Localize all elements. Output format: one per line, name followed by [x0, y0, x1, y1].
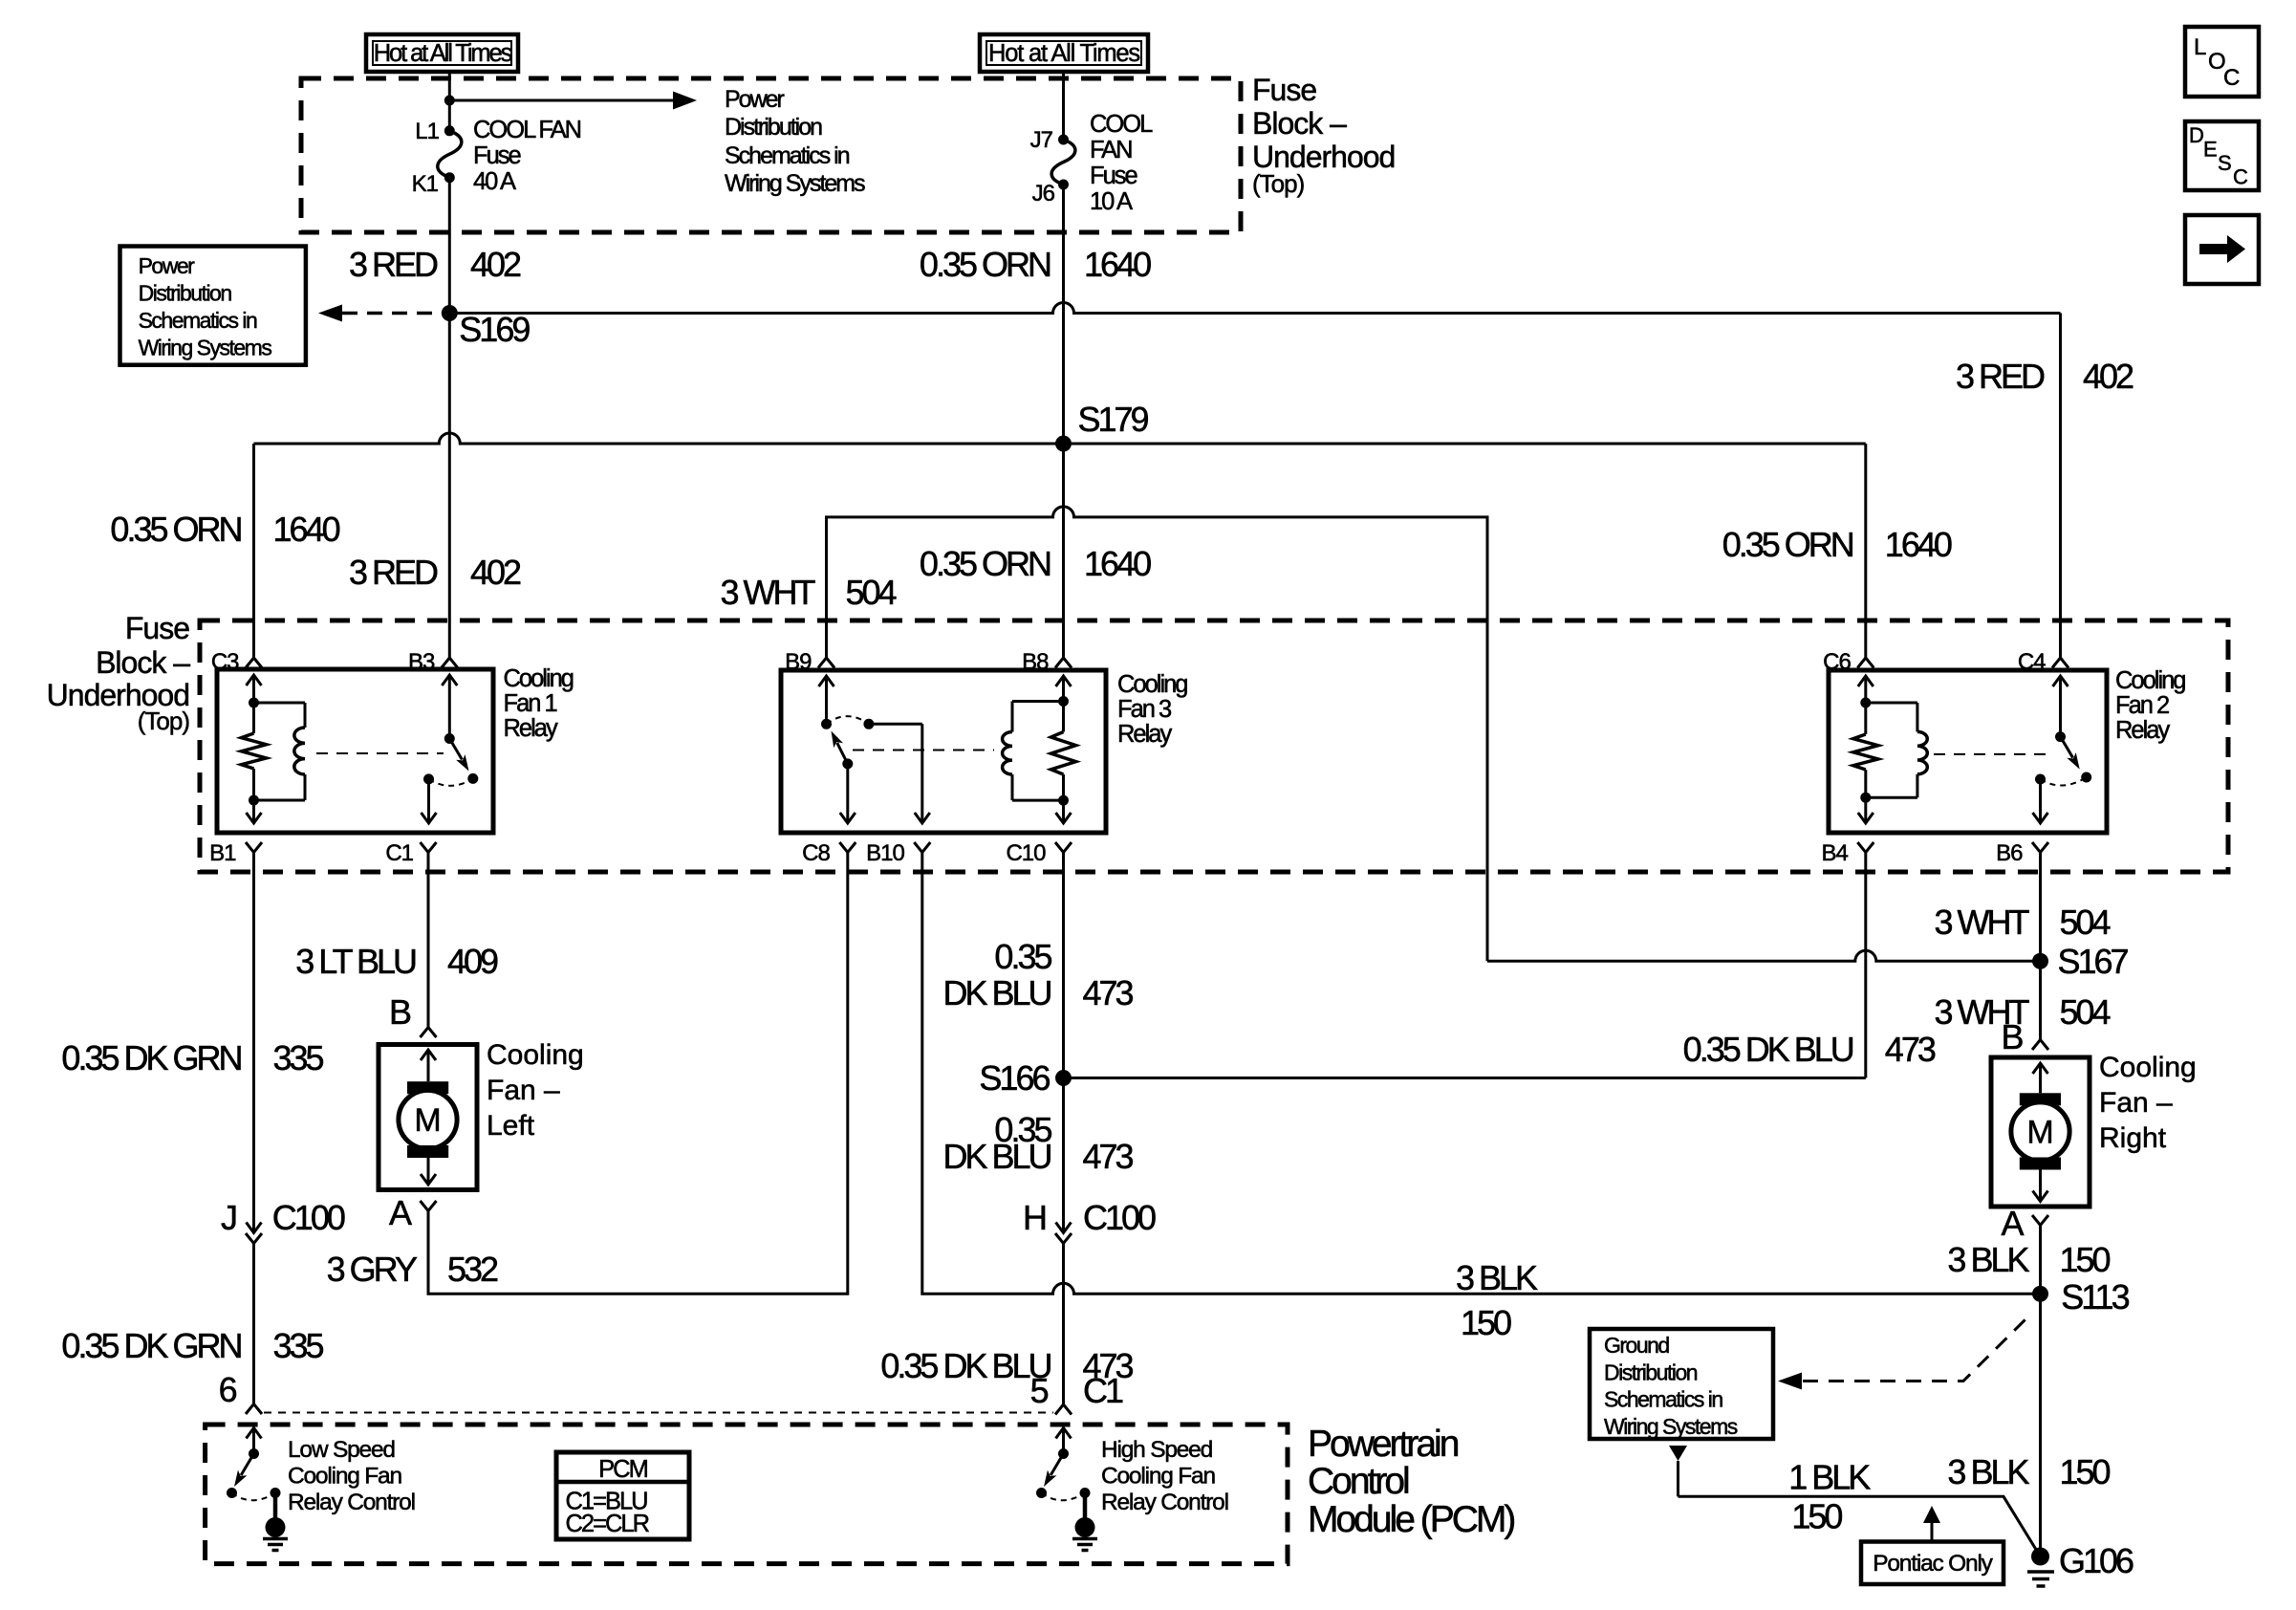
svg-text:L1: L1 [415, 119, 439, 144]
svg-text:C6: C6 [1823, 649, 1851, 675]
svg-text:COOL: COOL [1090, 111, 1153, 138]
svg-text:5: 5 [1030, 1371, 1049, 1410]
svg-text:Fan –: Fan – [2099, 1087, 2173, 1119]
pin C3 connector [246, 658, 262, 668]
svg-text:Relay Control: Relay Control [1101, 1490, 1228, 1515]
fuse block underhood dashed boundary (main) [200, 620, 2228, 872]
svg-text:Distribution: Distribution [139, 281, 232, 306]
wire: C100 H down to PCM pin 5, 0.35 DK BLU 473 [1062, 1244, 1065, 1405]
svg-text:Cooling: Cooling [487, 1039, 584, 1071]
pin A connector (motor right) [2032, 1215, 2048, 1226]
wire: down to relay C6, 0.35 ORN 1640 [1864, 444, 1867, 658]
svg-text:Wiring Systems: Wiring Systems [725, 170, 865, 197]
pin A connector (motor left) [421, 1201, 437, 1211]
wire: relay C1 down to left fan motor B, 3 LT BLU 409 [427, 853, 430, 1028]
relay2 actuation dashed link [1934, 753, 2049, 755]
svg-text:(Top): (Top) [138, 707, 190, 735]
svg-text:0.35 DK BLU: 0.35 DK BLU [880, 1346, 1051, 1385]
svg-text:D: D [2189, 123, 2203, 147]
PCM pin 5 connector [1055, 1404, 1072, 1415]
pin B10 connector [914, 842, 930, 853]
svg-text:B: B [389, 992, 411, 1032]
relay K1A: Cooling Fan 1 Relay box [217, 669, 493, 833]
wire: 1 BLK 150 to G106 [1679, 1496, 2041, 1556]
svg-text:402: 402 [470, 245, 521, 284]
relay2 switch common C4 internal [2053, 676, 2069, 686]
relay3 actuation dashed link [853, 750, 994, 751]
svg-text:Fan 1: Fan 1 [504, 690, 557, 717]
relay switch arm [449, 739, 462, 760]
wire: down to relay C3, 0.35 ORN 1640 [252, 444, 255, 658]
svg-text:3 WHT: 3 WHT [1935, 903, 2030, 942]
svg-text:S167: S167 [2058, 942, 2129, 981]
svg-text:0.35 ORN: 0.35 ORN [1722, 525, 1853, 564]
relay2 switch contact to B6 [2035, 774, 2046, 785]
PCM connector C1 thin dashed line [264, 1412, 1053, 1414]
svg-text:DK BLU: DK BLU [942, 973, 1051, 1012]
svg-text:B8: B8 [1022, 649, 1049, 675]
ground (PCM internal) [266, 1517, 286, 1537]
svg-text:S: S [2218, 151, 2231, 175]
svg-text:3 LT BLU: 3 LT BLU [295, 942, 416, 981]
svg-text:Power: Power [725, 86, 785, 113]
connector C100 pin J [247, 1223, 262, 1233]
svg-text:3 BLK: 3 BLK [1456, 1258, 1538, 1297]
svg-text:Relay: Relay [504, 715, 558, 742]
relay3 coil feed B8 internal [1056, 676, 1072, 686]
svg-text:Cooling Fan: Cooling Fan [1101, 1464, 1215, 1490]
svg-text:B1: B1 [209, 840, 236, 866]
relay resistor (parallel) [252, 703, 255, 733]
wire: down to relay C4, 3 RED 402 [2059, 314, 2062, 659]
reference box: Power Distribution Schematics in Wiring Systems (left) [120, 247, 306, 365]
svg-text:402: 402 [2083, 357, 2134, 396]
svg-text:C100: C100 [1083, 1198, 1156, 1237]
legend icon box LOC [2185, 27, 2259, 97]
svg-text:3 WHT: 3 WHT [721, 573, 816, 612]
relay3 coil [1012, 700, 1064, 703]
svg-text:K1: K1 [412, 171, 439, 197]
wire: S169 bus to the right, hops over fuse2 wire, turns down to C4 [449, 303, 2060, 314]
PCM driver switch [1056, 1428, 1072, 1439]
svg-text:Right: Right [2099, 1122, 2167, 1154]
svg-text:335: 335 [273, 1038, 324, 1077]
relay actuation dashed link [316, 752, 444, 754]
relay switch contact to C1 [423, 773, 434, 784]
svg-text:1640: 1640 [1084, 245, 1151, 284]
svg-text:335: 335 [273, 1326, 324, 1365]
wire: 3 WHT 504 net from relay B9 up and over to S167 [827, 507, 1488, 961]
pin C1 connector [421, 842, 437, 853]
wire: relay C10 down through S166 to C100 pin H, 0.35 DK BLU 473 [1062, 853, 1065, 1226]
dashed arrow from S169 to reference box [342, 312, 442, 315]
svg-text:B: B [2001, 1017, 2023, 1056]
svg-text:Cooling: Cooling [2115, 667, 2185, 694]
pin C8 connector [839, 842, 856, 853]
svg-text:504: 504 [846, 573, 897, 612]
legend icon box arrow [2185, 215, 2259, 284]
svg-text:C100: C100 [272, 1198, 345, 1237]
relay3 switch arm from C8 contact [842, 758, 853, 769]
wire: S169 leg down to relay B3 [448, 314, 451, 659]
svg-text:3 BLK: 3 BLK [1947, 1240, 2029, 1279]
svg-text:3 RED: 3 RED [349, 245, 438, 284]
pin B8 connector [1055, 658, 1072, 668]
power label box: Hot at All Times (left) [366, 34, 518, 72]
pin C10 connector [1055, 842, 1072, 853]
svg-text:(Top): (Top) [1252, 169, 1305, 198]
svg-text:Relay: Relay [1117, 721, 1172, 748]
svg-text:M: M [414, 1102, 441, 1139]
svg-text:150: 150 [2060, 1240, 2111, 1279]
svg-text:3 BLK: 3 BLK [1947, 1452, 2029, 1491]
wire to B1 internal [252, 800, 255, 822]
svg-text:G106: G106 [2059, 1541, 2134, 1580]
svg-text:E: E [2203, 138, 2217, 162]
svg-text:M: M [2026, 1115, 2053, 1151]
svg-text:J6: J6 [1032, 181, 1055, 207]
svg-text:C8: C8 [802, 840, 830, 866]
arrow from Pontiac Only box up [1931, 1522, 1934, 1542]
svg-text:Schematics in: Schematics in [139, 308, 257, 333]
relay2 coil [1866, 702, 1917, 705]
PCM legend box [556, 1452, 689, 1539]
wire: S166 to relay B4, 0.35 DK BLU 473 [1064, 1077, 1866, 1079]
svg-text:504: 504 [2060, 903, 2111, 942]
motor M1: Cooling Fan - Left [421, 1028, 437, 1038]
wire: right fan motor A down to S113, 3 BLK 150 [2039, 1226, 2042, 1295]
wire: relay B1 down to C100 pin J, 0.35 DK GRN 335 [252, 853, 255, 1226]
svg-text:409: 409 [447, 942, 498, 981]
svg-text:0.35 DK BLU: 0.35 DK BLU [1683, 1030, 1853, 1069]
svg-text:Hot at All Times: Hot at All Times [374, 40, 512, 67]
PCM dashed boundary [206, 1425, 1288, 1564]
dashed arrow from S113 to ground reference box [1803, 1313, 2032, 1382]
motor M2: Cooling Fan - Right [2032, 1040, 2048, 1051]
svg-text:150: 150 [1461, 1303, 1511, 1342]
relay K2: Cooling Fan 2 Relay box [1829, 670, 2107, 833]
svg-text:C3: C3 [211, 649, 239, 675]
relay2 switch arm [2061, 737, 2073, 758]
wire arrow to Power Distribution Schematics (right) [449, 99, 675, 102]
label box: Pontiac Only [1861, 1542, 2004, 1585]
svg-text:Schematics in: Schematics in [725, 142, 850, 169]
PCM pin 6 connector [246, 1404, 262, 1415]
relay3 resistor [1062, 702, 1065, 732]
pin B1 connector [246, 842, 262, 853]
wire: fuse J6 down through S179 to relay B8, 0.35 ORN 1640 [1062, 185, 1065, 658]
svg-text:PCM: PCM [598, 1456, 647, 1483]
relay3 switch common B9 internal [819, 676, 834, 686]
fuse block underhood dashed boundary (top) [301, 78, 1241, 232]
svg-text:Block –: Block – [1252, 106, 1347, 141]
svg-text:L: L [2194, 34, 2206, 60]
svg-text:473: 473 [1885, 1030, 1936, 1069]
svg-text:Schematics in: Schematics in [1604, 1387, 1722, 1412]
svg-text:Block –: Block – [96, 645, 190, 680]
splice S179 [1055, 436, 1072, 452]
svg-text:0.35 DK GRN: 0.35 DK GRN [61, 1326, 241, 1365]
pin B4 connector [1857, 842, 1874, 853]
wire: S179 bus left to C3 and right to C6, hop over 3 RED wire [254, 433, 1866, 444]
svg-text:0.35 ORN: 0.35 ORN [920, 544, 1051, 583]
svg-text:B10: B10 [866, 840, 904, 866]
fuse F1: COOL FAN Fuse 40 A (pins L1/K1) [444, 125, 455, 136]
wire: S113 down to ground G106, 3 BLK 150 [2039, 1294, 2042, 1556]
ground G106 [2031, 1548, 2049, 1566]
svg-text:Cooling: Cooling [2099, 1052, 2197, 1083]
relay coil [254, 702, 306, 705]
svg-text:Fuse: Fuse [1252, 73, 1316, 107]
svg-text:Distribution: Distribution [725, 114, 822, 141]
relay coil feed C3 internal [247, 675, 262, 685]
svg-text:J: J [221, 1198, 236, 1237]
svg-text:B3: B3 [408, 649, 435, 675]
svg-text:Module (PCM): Module (PCM) [1308, 1499, 1514, 1540]
splice S113 [2032, 1286, 2048, 1302]
svg-text:Low Speed: Low Speed [288, 1437, 395, 1463]
svg-text:0.35 ORN: 0.35 ORN [920, 245, 1051, 284]
ground (PCM internal) [1075, 1517, 1095, 1537]
svg-text:Power: Power [139, 253, 196, 278]
svg-text:C4: C4 [2018, 649, 2046, 675]
svg-text:3 GRY: 3 GRY [327, 1250, 418, 1289]
svg-text:Left: Left [487, 1110, 535, 1142]
svg-text:Powertrain: Powertrain [1308, 1424, 1459, 1465]
svg-text:High Speed: High Speed [1101, 1437, 1213, 1463]
pin C4 connector [2052, 658, 2069, 668]
svg-text:Cooling: Cooling [504, 665, 574, 692]
reference box: Ground Distribution Schematics in Wiring Systems [1590, 1329, 1773, 1439]
svg-text:6: 6 [219, 1370, 237, 1409]
relay2 resistor [1864, 703, 1867, 734]
wire: relay B10 to splice S113, 3 BLK 150 [922, 853, 2041, 1295]
svg-text:473: 473 [1083, 1137, 1134, 1176]
svg-text:Wiring Systems: Wiring Systems [139, 336, 272, 360]
svg-text:C1: C1 [1083, 1371, 1123, 1410]
svg-text:532: 532 [447, 1250, 498, 1289]
pin C6 connector [1857, 658, 1874, 668]
svg-text:3 RED: 3 RED [1956, 357, 2045, 396]
svg-text:1640: 1640 [273, 510, 340, 549]
svg-text:B6: B6 [1996, 840, 2023, 866]
svg-text:3 RED: 3 RED [349, 553, 438, 592]
arrow from ground box down to 1 BLK wire [1669, 1446, 1687, 1461]
relay switch common B3 internal [442, 675, 457, 685]
relay3 B10 contact [863, 719, 874, 729]
svg-text:B9: B9 [785, 649, 812, 675]
svg-text:0.35: 0.35 [994, 937, 1051, 976]
svg-text:C10: C10 [1006, 840, 1046, 866]
svg-text:S179: S179 [1078, 400, 1149, 439]
svg-text:A: A [2001, 1204, 2024, 1243]
svg-text:473: 473 [1083, 973, 1134, 1012]
svg-text:Distribution: Distribution [1604, 1360, 1698, 1385]
PCM driver switch [247, 1428, 262, 1439]
splice S166 [1055, 1070, 1072, 1086]
svg-text:1640: 1640 [1084, 544, 1151, 583]
wire: fuse K1 down to splice S169, 3 RED 402 [448, 178, 451, 314]
svg-text:Pontiac Only: Pontiac Only [1873, 1551, 1993, 1577]
svg-text:Fan –: Fan – [487, 1075, 560, 1106]
svg-text:Fuse: Fuse [473, 142, 522, 169]
svg-text:FAN: FAN [1090, 137, 1132, 163]
svg-text:COOL FAN: COOL FAN [473, 117, 581, 143]
svg-text:Relay: Relay [2115, 717, 2170, 744]
pin B6 connector [2032, 842, 2048, 853]
wire: Hot at All Times 2 down to fuse J7 [1062, 72, 1065, 140]
svg-text:40 A: 40 A [473, 168, 516, 195]
svg-text:Wiring Systems: Wiring Systems [1604, 1414, 1738, 1439]
svg-text:0.35 DK GRN: 0.35 DK GRN [61, 1038, 241, 1077]
legend icon box DESC [2185, 121, 2259, 190]
svg-text:C: C [2233, 165, 2248, 189]
power label box: Hot at All Times (right) [980, 34, 1148, 72]
svg-text:Fuse: Fuse [1090, 163, 1138, 189]
pin B3 connector [442, 658, 458, 668]
splice S169 [442, 305, 458, 321]
svg-text:S113: S113 [2061, 1277, 2129, 1316]
svg-text:Control: Control [1308, 1461, 1409, 1502]
svg-text:504: 504 [2060, 992, 2111, 1032]
svg-text:A: A [389, 1193, 412, 1232]
svg-text:B4: B4 [1821, 840, 1848, 866]
relay3 moved-position dashed arc [827, 716, 869, 724]
relay2 coil feed C6 internal [1858, 676, 1874, 686]
wire: Hot at All Times 1 down to fuse L1 [448, 72, 451, 131]
relay K3: Cooling Fan 3 Relay box [781, 670, 1106, 833]
svg-text:J7: J7 [1030, 127, 1053, 153]
relay3 C8 contact wire [846, 764, 849, 822]
svg-text:Fan 3: Fan 3 [1117, 696, 1172, 723]
svg-text:1 BLK: 1 BLK [1788, 1458, 1871, 1497]
svg-text:1640: 1640 [1885, 525, 1952, 564]
svg-text:Cooling Fan: Cooling Fan [288, 1464, 401, 1490]
svg-text:150: 150 [1791, 1497, 1842, 1536]
svg-text:S169: S169 [459, 310, 530, 349]
svg-text:Cooling: Cooling [1117, 671, 1187, 698]
svg-text:Fuse: Fuse [125, 611, 189, 645]
svg-text:0.35 ORN: 0.35 ORN [110, 510, 241, 549]
svg-text:H: H [1023, 1198, 1046, 1237]
wire: C100 J down to PCM pin 6, 0.35 DK GRN 335 [252, 1244, 255, 1404]
splice S167 [2032, 953, 2048, 969]
svg-text:Relay Control: Relay Control [288, 1490, 415, 1515]
svg-text:C: C [2223, 65, 2240, 91]
svg-text:C1: C1 [385, 840, 413, 866]
svg-text:Hot at All Times: Hot at All Times [988, 40, 1139, 67]
pin B9 connector [818, 658, 834, 668]
svg-text:10 A: 10 A [1090, 188, 1133, 215]
svg-text:S166: S166 [979, 1058, 1050, 1098]
svg-text:Ground: Ground [1604, 1333, 1669, 1358]
connector C100 pin H [1056, 1223, 1072, 1233]
svg-text:DK BLU: DK BLU [942, 1137, 1051, 1176]
svg-text:150: 150 [2060, 1452, 2111, 1491]
svg-text:Fan 2: Fan 2 [2115, 692, 2169, 719]
fuse F2: COOL FAN Fuse 10 A (pins J7/J6) [1058, 135, 1069, 145]
svg-text:402: 402 [470, 553, 521, 592]
wire: left fan motor A to relay C8, 3 GRY 532 [428, 853, 848, 1295]
node: junction dot on fuse feed [444, 96, 455, 106]
wire: relay B6 down through S167 to right fan motor B, 3 WHT 504 [2039, 853, 2042, 1040]
svg-text:C2=CLR: C2=CLR [566, 1511, 650, 1537]
